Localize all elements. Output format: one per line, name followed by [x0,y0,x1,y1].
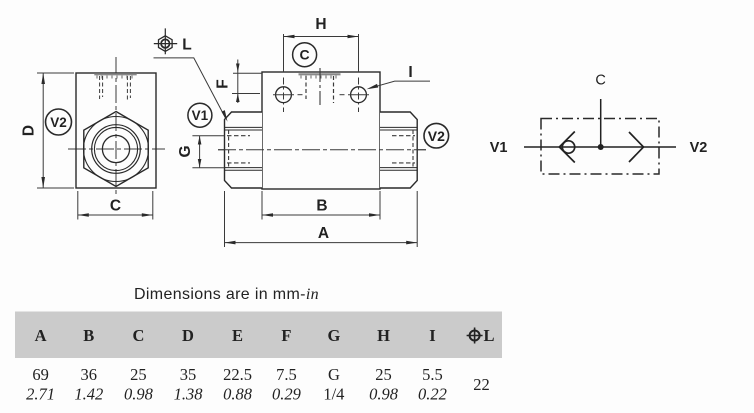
svg-text:1.42: 1.42 [74,385,103,404]
right port hex flat line top [380,127,417,130]
svg-text:B: B [83,326,94,345]
pilot branch line C [600,99,602,147]
left port hex flat line top [225,127,263,130]
svg-text:L: L [483,326,494,345]
top port centerline [319,68,321,108]
svg-text:V2: V2 [50,115,67,130]
leader I [370,81,431,88]
body block (front view) [76,73,156,188]
dimension A extension lines [225,191,418,247]
mounting hole left [276,87,292,103]
svg-text:A: A [318,225,329,242]
dimension C extension line right [152,191,154,220]
body block (side view) [262,72,380,189]
table header strip [15,312,502,359]
svg-text:22.5: 22.5 [223,365,252,384]
mounting hole right [351,87,367,103]
svg-text:2.71: 2.71 [26,385,55,404]
horizontal centerline of front view [68,148,165,150]
svg-text:H: H [377,326,390,345]
check valve ball [562,141,574,153]
dimension C arrow left [78,213,89,217]
svg-text:G: G [328,365,340,384]
svg-text:D: D [182,326,194,345]
top port thread strip (side view) [299,73,341,75]
svg-text:22: 22 [473,375,490,394]
dimension D line [42,73,44,188]
left hex port outline [225,112,263,188]
svg-text:0.98: 0.98 [124,385,154,404]
svg-text:V1: V1 [490,140,508,156]
L target symbol [154,28,177,54]
top port C thread strip (front view) [94,73,136,75]
svg-text:L: L [182,37,191,54]
leader I arrow [367,84,379,89]
svg-text:0.22: 0.22 [418,385,447,404]
dimension F ext lines [233,72,262,74]
centerline over body and ports [218,149,426,151]
flow direction arrow [629,132,644,162]
right port thread depth hidden line [412,130,414,168]
dimension F line [237,60,239,104]
svg-text:1/4: 1/4 [323,385,344,404]
svg-text:H: H [315,16,326,33]
table values mm row [32,365,489,394]
balloon C (side view) [293,43,317,67]
svg-text:D: D [21,125,38,136]
dimension D arrow bottom [41,177,45,188]
hex nut outline [84,112,148,187]
balloon V2 (front view) [46,109,72,135]
dimension H line [284,36,359,38]
check valve seat [559,132,575,163]
svg-text:I: I [408,64,412,81]
svg-text:G: G [177,145,194,157]
main horizontal centerline [218,149,426,151]
right port thread hidden line top [392,135,415,137]
left port hex flat line bottom [225,168,263,171]
flow line V1-V2 [524,146,676,148]
dimension B extension lines [262,191,380,220]
vertical centerline of front view [115,57,117,195]
left port thread hidden line bottom [227,162,250,164]
dimension C extension line left [77,191,79,220]
right port thread hidden line bottom [392,162,415,164]
table values inch row [26,385,447,404]
svg-text:A: A [35,326,47,345]
svg-text:0.88: 0.88 [223,385,253,404]
dimension G arrows [198,136,202,145]
thread minor circle [94,127,137,170]
junction dot [598,144,604,150]
svg-text:0.98: 0.98 [369,385,399,404]
top port hidden thread lines left pair [100,76,103,99]
dimension D extension line bottom [37,187,74,189]
svg-text:C: C [595,73,605,89]
table headers [35,326,495,345]
svg-text:E: E [232,326,243,345]
left port thread depth hidden line [228,130,230,168]
right port hex flat line bottom [380,168,417,171]
svg-text:36: 36 [81,365,98,384]
dimension G line [199,136,201,168]
dimension A line [225,242,418,244]
dimension G ext lines [192,136,224,168]
svg-text:5.5: 5.5 [422,365,443,384]
svg-text:C: C [300,47,310,63]
svg-text:V2: V2 [428,128,445,144]
svg-text:25: 25 [375,365,392,384]
dimension H extension lines [284,34,359,72]
balloon V1 [188,103,212,127]
schematic enclosure box (dash-dot) [541,119,659,175]
thread major circle [92,125,141,174]
dimension B arrows [262,213,273,217]
svg-text:69: 69 [32,365,49,384]
dimension F arrows (outside) [236,64,240,73]
left port thread hidden line top [227,135,250,137]
svg-text:0.29: 0.29 [272,385,301,404]
svg-text:F: F [215,79,232,88]
svg-text:F: F [281,326,291,345]
leader L arrow [222,110,228,122]
balloon V2 (side view) [424,123,449,148]
svg-text:C: C [110,198,121,215]
dimension D extension line top [37,72,74,74]
dimension B line [262,214,380,216]
dimension C line [78,214,153,216]
svg-text:C: C [132,326,144,345]
svg-text:G: G [327,326,340,345]
svg-text:Dimensions are in mm-in: Dimensions are in mm-in [134,286,319,303]
chamfer circle of hex boss [84,117,149,182]
svg-text:1.38: 1.38 [174,385,204,404]
svg-text:B: B [316,198,327,215]
leader L [154,58,226,118]
dimension C arrow right [142,213,153,217]
svg-text:V1: V1 [192,108,209,123]
dimension A arrows [225,241,236,245]
svg-text:I: I [429,326,435,345]
top port hidden line left [305,76,307,99]
bore circle [102,135,129,162]
top port hidden line right [333,76,335,103]
right hex port outline [380,112,417,188]
position symbol in header [467,328,483,344]
svg-text:V2: V2 [690,140,708,156]
svg-text:35: 35 [180,365,197,384]
dimension D arrow top [41,73,45,84]
svg-text:25: 25 [130,365,147,384]
dimension H arrows [284,35,295,39]
svg-text:7.5: 7.5 [276,365,297,384]
top port hidden thread lines right pair [127,76,130,101]
